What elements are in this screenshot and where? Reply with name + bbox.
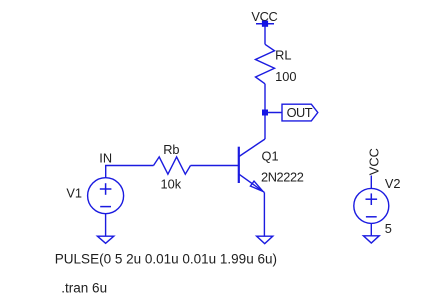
svg-text:RL: RL	[275, 48, 291, 63]
resistor Rb	[154, 157, 191, 174]
net flag VCC (top) bar	[256, 23, 274, 25]
port flag OUT outline	[282, 104, 318, 121]
svg-text:2N2222: 2N2222	[261, 169, 304, 184]
svg-text:.tran 6u: .tran 6u	[61, 281, 107, 296]
svg-text:V1: V1	[66, 186, 82, 201]
resistor RL	[256, 44, 275, 84]
V2 plus sign	[366, 193, 378, 205]
wire V1 to ground	[105, 214, 107, 236]
svg-text:5: 5	[385, 221, 392, 236]
svg-text:V2: V2	[385, 176, 401, 191]
voltage source V1 circle	[88, 178, 124, 214]
transistor Q1 collector lead	[239, 139, 265, 157]
wire RL bottom to collector node	[264, 84, 266, 113]
transistor Q1 base bar	[238, 147, 240, 183]
V1 plus sign	[100, 183, 112, 195]
wire IN to Rb	[105, 165, 154, 167]
net flag VCC (top) anchor square	[262, 21, 268, 27]
wire node to collector	[264, 116, 266, 140]
svg-text:IN: IN	[99, 150, 112, 165]
ground (emitter)	[257, 236, 273, 244]
svg-text:Rb: Rb	[163, 142, 179, 157]
wire node to OUT port	[265, 112, 282, 114]
V1 minus sign	[100, 206, 111, 208]
svg-text:VCC: VCC	[366, 148, 381, 175]
svg-text:Q1: Q1	[262, 149, 279, 164]
svg-text:OUT: OUT	[287, 105, 313, 120]
wire V2 to ground	[370, 223, 372, 235]
svg-text:100: 100	[275, 69, 296, 84]
V2 minus sign	[366, 216, 377, 218]
wire IN corner vertical to V1	[105, 166, 107, 178]
svg-text:PULSE(0 5 2u 0.01u 0.01u 1.99u: PULSE(0 5 2u 0.01u 0.01u 1.99u 6u)	[55, 251, 277, 266]
wire VCC flag to V2	[370, 176, 372, 189]
wire emitter to ground	[263, 192, 265, 236]
ground (V1)	[97, 236, 113, 243]
junction node at OUT	[262, 110, 268, 116]
wire Rb to base	[191, 165, 239, 167]
transistor Q1 emitter arrow	[250, 181, 263, 191]
wire VCC flag to RL top	[264, 24, 266, 45]
voltage source V2 circle	[354, 188, 389, 223]
ground (V2)	[363, 236, 379, 243]
svg-text:10k: 10k	[161, 177, 182, 192]
transistor Q1 emitter lead	[239, 174, 264, 192]
